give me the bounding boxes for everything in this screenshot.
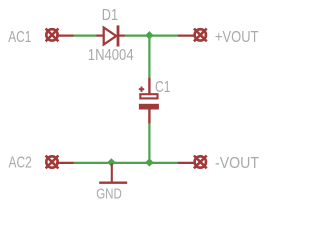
pad -VOUT [194,156,207,169]
wire: top rail AC1 pin to diode anode (net N$1) [73,34,96,36]
node: junction bottom rail / C1 branch [145,158,153,166]
wire: diode cathode to +VOUT rail [124,34,178,36]
diode D1 [104,25,120,46]
wire: bottom rail AC2 to -VOUT (net GND) [73,162,178,164]
svg-text:-VOUT: -VOUT [215,155,259,172]
pin: C1 top stub [148,78,150,95]
pin: AC2 pad stub [56,162,74,164]
ground [99,164,127,183]
pin: AC1 pad stub [56,34,74,36]
svg-text:D1: D1 [102,7,118,24]
svg-text:AC1: AC1 [8,29,31,46]
node: junction bottom rail / GND [107,158,115,166]
pin: diode D1 anode stub [96,34,103,36]
svg-text:GND: GND [96,187,122,203]
pin: diode D1 cathode stub [119,34,125,36]
pad AC1 [46,29,59,42]
svg-text:1N4004: 1N4004 [88,47,134,64]
pad +VOUT [194,29,207,42]
wire: vertical branch from top rail down to C1 [148,36,150,78]
svg-text:+VOUT: +VOUT [215,29,259,46]
pad AC2 [46,156,59,169]
pin: C1 bottom stub [148,109,150,124]
pin: +VOUT pad stub [178,34,196,36]
svg-text:C1: C1 [155,79,171,96]
node: junction top rail / C1 branch [145,31,153,39]
pin: -VOUT pad stub [178,162,196,164]
wire: vertical from C1 down to bottom rail [148,123,150,163]
svg-text:AC2: AC2 [9,154,32,171]
capacitor C1 [139,87,159,110]
